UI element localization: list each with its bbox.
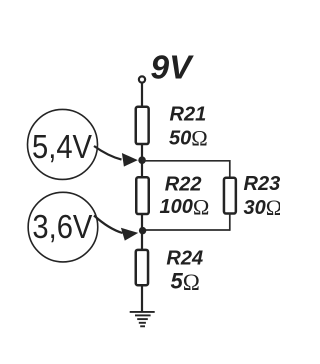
svg-text:30Ω: 30Ω: [244, 195, 281, 220]
svg-text:R24: R24: [166, 247, 203, 269]
wire terminal to R21: [141, 83, 143, 106]
callout circle 3,6V: [28, 192, 98, 262]
wire node A to R23 branch: [142, 160, 230, 162]
wire R21 to R22: [141, 145, 143, 178]
wire node B to R23 branch: [142, 229, 230, 231]
node B (junction dot lower): [139, 227, 146, 234]
resistor R21: [136, 107, 149, 144]
node A (junction dot upper): [138, 156, 146, 164]
wire R24 to ground: [141, 285, 143, 312]
svg-text:9V: 9V: [151, 49, 195, 86]
terminal 9V (open circle): [139, 76, 145, 82]
svg-text:5Ω: 5Ω: [171, 269, 200, 295]
svg-text:R22: R22: [165, 174, 202, 196]
wire R22 to R24: [141, 214, 143, 250]
svg-text:5,4V: 5,4V: [32, 129, 93, 166]
svg-text:100Ω: 100Ω: [160, 194, 210, 219]
wire R23 branch vertical top: [229, 160, 231, 178]
arrow callout 5,4V to node A: [94, 146, 122, 160]
wire R23 branch vertical bottom: [229, 213, 231, 231]
callout circle 5,4V: [28, 109, 98, 179]
svg-text:3,6V: 3,6V: [32, 209, 93, 246]
svg-text:R23: R23: [244, 173, 281, 195]
arrow callout 3,6V to node B: [94, 216, 123, 234]
svg-text:R21: R21: [170, 103, 207, 125]
resistor R23: [224, 178, 236, 214]
ground: [130, 312, 155, 326]
svg-text:50Ω: 50Ω: [169, 126, 208, 151]
resistor R24: [136, 250, 148, 285]
resistor R22: [136, 177, 149, 214]
